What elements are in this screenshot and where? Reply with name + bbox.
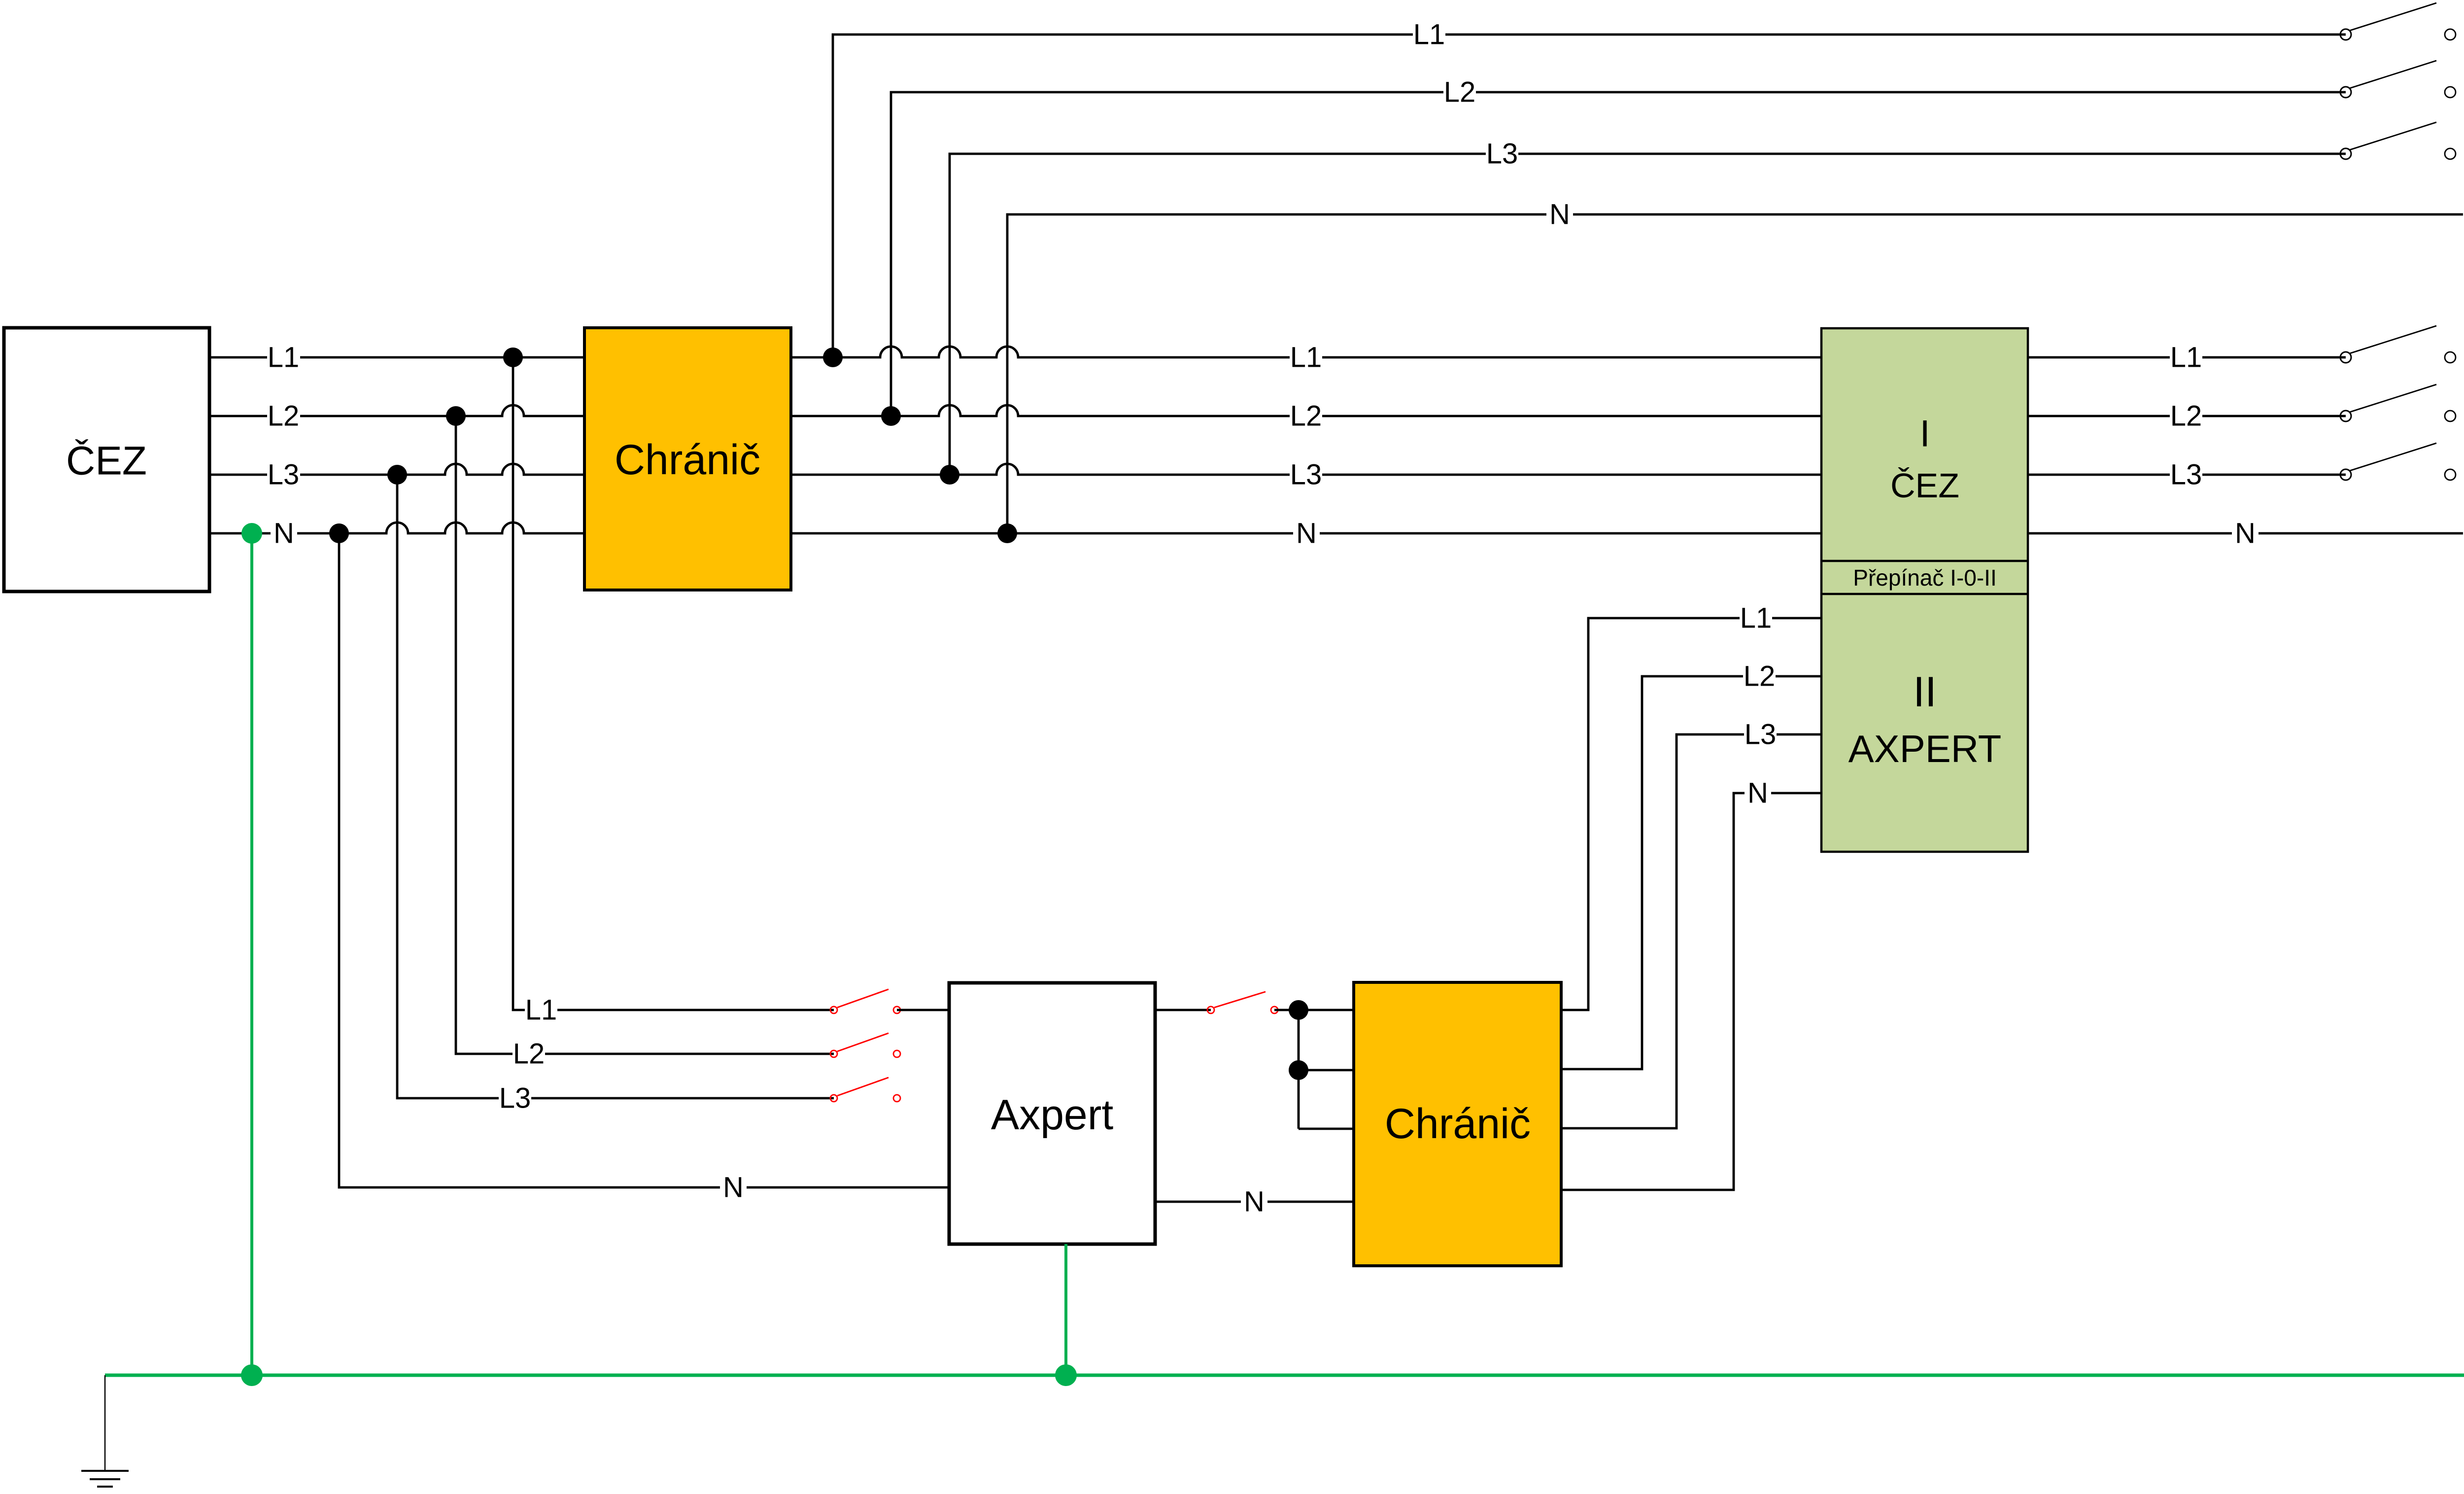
wire L1 Přepínač to 1f breakers [2028,342,2346,374]
Chránič RCD 2 box (orange) [1354,982,1561,1266]
wire L3 Přepínač to 1f breakers [2028,459,2346,491]
wire switch to Chránič2 L1 input [1274,1009,1354,1011]
wire L1 switch to Axpert input [897,1009,949,1011]
junction dot Axpert L1 bridge mid [1289,1060,1308,1080]
svg-text:ČEZ: ČEZ [1890,466,1959,505]
svg-text:L3: L3 [1745,719,1777,751]
svg-text:N: N [1549,199,1570,231]
svg-text:ČEZ: ČEZ [66,439,147,484]
wire L3 down branch [397,475,834,1114]
junction dot N branch down [329,523,349,543]
wire L2 ČEZ to Chránič [209,400,584,432]
wire L3 Chránič2 to Přepínač II [1561,719,1821,1129]
circuit breaker switch 1f L1 [2340,326,2456,363]
svg-text:N: N [1244,1186,1265,1218]
svg-text:II: II [1913,668,1937,716]
svg-text:L2: L2 [1290,400,1322,432]
svg-text:L2: L2 [1444,76,1476,108]
svg-text:L2: L2 [513,1038,545,1070]
Axpert inverter box [949,983,1155,1244]
svg-text:L3: L3 [499,1082,531,1114]
wire L2 top branch to 3f breakers [891,76,2346,417]
red isolator switch after Axpert [1207,992,1278,1013]
circuit breaker switch 3f L3 [2340,122,2456,159]
svg-text:L3: L3 [268,459,300,491]
svg-text:L3: L3 [1290,459,1322,491]
wire Axpert output L [1155,1009,1211,1011]
svg-text:L1: L1 [1740,602,1772,634]
green PE junction dot left [241,1364,263,1386]
wire bridge to Chránič2 L2/L3 inputs [1299,1010,1354,1129]
wire L2 down branch [456,416,834,1070]
green PE wire from ČEZ N [250,533,253,1375]
svg-text:L3: L3 [2170,459,2202,491]
svg-text:I: I [1919,413,1930,455]
svg-text:N: N [2235,518,2256,550]
wire L1 ČEZ to Chránič [209,342,584,374]
wire N Axpert to Chránič2 [1155,1186,1354,1218]
svg-text:L2: L2 [268,400,300,432]
junction dot N tap (green PE bond) [241,523,262,544]
junction dot L2 branch down [446,406,466,426]
circuit breaker switch 3f L2 [2340,61,2456,98]
red isolator switch L2 before Axpert [830,1033,900,1057]
wire N Chránič to Přepínač [791,518,1821,550]
green PE bus [105,1374,2464,1377]
svg-text:L1: L1 [1290,342,1322,374]
wire N down branch to Axpert [339,533,949,1204]
junction dot L2 branch up [881,406,901,426]
wire L1 down branch to Axpert input [513,357,834,1026]
Chránič RCD 1 box (orange) [584,328,791,590]
svg-text:L2: L2 [1744,660,1776,693]
svg-text:L1: L1 [2170,342,2202,374]
ground lead left [104,1375,106,1471]
wire L3 ČEZ to Chránič [209,459,584,491]
wire L1 Chránič2 to Přepínač II [1561,602,1821,1010]
svg-text:L3: L3 [1486,138,1518,170]
wire L3 top branch to 3f breakers [950,138,2346,475]
wire N Chránič2 to Přepínač II [1561,777,1821,1190]
svg-text:N: N [274,518,294,550]
circuit breaker switch 3f L1 [2340,3,2456,40]
Přepínač I-0-II transfer switch box (green) [1821,328,2028,852]
red isolator switch L3 before Axpert [830,1077,900,1102]
wire L1 top branch to 3f breakers [833,19,2346,358]
wire L2 Chránič2 to Přepínač II [1561,660,1821,1070]
junction dot Axpert L1 bridge top [1289,1000,1308,1020]
svg-text:N: N [1747,777,1768,809]
wire L2 Přepínač to 1f breakers [2028,400,2346,432]
red isolator switch L1 before Axpert [830,989,900,1013]
svg-text:AXPERT: AXPERT [1848,727,2002,770]
junction dot N branch up [997,523,1017,543]
wire N Přepínač out [2028,518,2463,550]
svg-text:L1: L1 [525,994,557,1026]
svg-text:Přepínač I-0-II: Přepínač I-0-II [1853,565,1996,591]
circuit breaker switch 1f L2 [2340,384,2456,421]
junction dot L1 branch down [503,347,523,367]
svg-text:N: N [723,1172,744,1204]
junction dot L3 branch down [387,465,407,485]
svg-text:N: N [1296,518,1317,550]
wire L1 Chránič to Přepínač [791,342,1821,374]
ground symbol left [81,1471,129,1487]
svg-text:L1: L1 [1413,19,1445,51]
wire L2 Chránič to Přepínač [791,400,1821,432]
wire N ČEZ to Chránič [209,518,584,550]
svg-text:Axpert: Axpert [991,1091,1114,1139]
ČEZ grid source box [4,328,209,591]
wire L3 Chránič to Přepínač [791,459,1821,491]
circuit breaker switch 1f L3 [2340,443,2456,480]
svg-text:Chránič: Chránič [1385,1100,1531,1147]
junction dot L3 branch up [940,465,959,485]
svg-text:Chránič: Chránič [615,436,760,484]
green PE wire from Axpert [1064,1244,1067,1375]
green PE junction dot Axpert [1055,1364,1077,1386]
svg-text:L2: L2 [2170,400,2202,432]
junction dot L1 branch up [823,347,843,367]
svg-text:L1: L1 [268,342,300,374]
wire N top branch [1007,199,2463,534]
